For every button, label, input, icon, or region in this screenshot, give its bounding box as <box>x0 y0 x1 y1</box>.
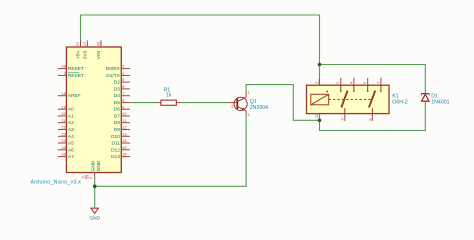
svg-text:GND: GND <box>89 215 100 221</box>
wire Arduino D5 to resistor R1 <box>130 102 156 104</box>
svg-text:27: 27 <box>75 41 80 46</box>
svg-text:28: 28 <box>61 64 66 69</box>
svg-text:D9: D9 <box>114 127 120 133</box>
svg-text:RESET: RESET <box>68 73 84 79</box>
svg-text:1N4001: 1N4001 <box>431 99 449 105</box>
transistor Q1 pin numbers <box>231 90 250 118</box>
svg-text:D11: D11 <box>111 141 120 147</box>
svg-text:D12: D12 <box>111 147 120 153</box>
wire +5V rail from Arduino pin 27 to relay pin 1 <box>81 15 320 85</box>
svg-text:D5: D5 <box>114 100 120 106</box>
svg-text:D1: D1 <box>431 93 438 99</box>
svg-text:24: 24 <box>61 138 66 143</box>
svg-text:25: 25 <box>61 145 66 150</box>
svg-text:D7: D7 <box>114 114 120 120</box>
svg-text:30: 30 <box>96 41 101 46</box>
svg-text:RESET: RESET <box>68 66 84 72</box>
svg-text:K1: K1 <box>392 93 398 99</box>
svg-text:A6: A6 <box>68 147 74 153</box>
svg-text:21: 21 <box>61 118 66 123</box>
svg-text:18: 18 <box>61 91 66 96</box>
svg-text:13: 13 <box>122 131 127 136</box>
svg-text:1k: 1k <box>166 93 172 99</box>
Arduino left pin names <box>68 66 84 160</box>
overline for active-low RESET pin 3 <box>68 72 79 74</box>
wire from junction to diode D1 cathode <box>320 65 426 94</box>
svg-text:16: 16 <box>122 152 127 157</box>
svg-text:19: 19 <box>61 104 66 109</box>
svg-text:A5: A5 <box>68 141 74 147</box>
ground symbol <box>91 208 98 213</box>
Arduino bottom pin numbers 29 4 <box>85 174 94 179</box>
svg-text:Q1: Q1 <box>250 99 257 105</box>
resistor R1 <box>157 100 181 105</box>
relay K1 body <box>307 85 390 113</box>
wire from diode D1 anode to relay pin 10 <box>320 101 426 130</box>
svg-text:10: 10 <box>122 111 127 116</box>
junction at relay pin 10 <box>318 119 322 123</box>
svg-text:G6H-2: G6H-2 <box>392 100 407 106</box>
svg-text:10: 10 <box>314 113 319 118</box>
Arduino right pin stubs <box>121 69 130 157</box>
relay dashed link <box>329 99 371 101</box>
svg-text:D0/RX: D0/RX <box>106 66 121 72</box>
svg-text:3V3: 3V3 <box>82 50 88 59</box>
relay top pin stubs <box>319 78 381 85</box>
Arduino top pin numbers 27 17 30 <box>75 41 101 46</box>
svg-text:D6: D6 <box>114 107 120 113</box>
transistor Q1 <box>228 92 248 114</box>
junction at relay pin 1 / diode branch <box>318 63 322 67</box>
svg-text:A3: A3 <box>68 127 74 133</box>
svg-text:17: 17 <box>82 41 87 46</box>
relay bottom pin numbers <box>314 113 372 121</box>
svg-text:2N3904: 2N3904 <box>250 105 268 111</box>
svg-text:+5V: +5V <box>76 50 82 59</box>
wire transistor emitter to ground rail <box>95 114 246 187</box>
relay top pin numbers <box>314 81 381 84</box>
svg-text:D8: D8 <box>114 120 120 126</box>
svg-text:12: 12 <box>122 125 127 130</box>
svg-text:D4: D4 <box>114 93 120 99</box>
relay bottom pin stubs <box>345 114 373 121</box>
svg-text:GND: GND <box>90 160 96 171</box>
wire resistor R1 to transistor base <box>181 102 228 104</box>
svg-text:26: 26 <box>61 152 66 157</box>
Arduino bottom GND pin stub <box>94 173 96 178</box>
svg-text:A0: A0 <box>68 107 74 113</box>
svg-text:D10: D10 <box>111 134 120 140</box>
Arduino right pin numbers <box>122 64 127 157</box>
svg-text:D2: D2 <box>114 80 120 86</box>
svg-text:VIN: VIN <box>96 51 102 60</box>
Arduino left pin stubs <box>58 69 67 157</box>
svg-text:23: 23 <box>61 131 66 136</box>
svg-text:D3: D3 <box>114 86 120 92</box>
svg-text:Arduino_Nano_v3.x: Arduino_Nano_v3.x <box>31 180 82 186</box>
relay coil <box>311 91 329 105</box>
svg-text:D1/TX: D1/TX <box>106 73 120 79</box>
svg-text:D13: D13 <box>111 154 120 160</box>
svg-text:GND: GND <box>96 160 102 171</box>
svg-text:A2: A2 <box>68 120 74 126</box>
relay contact arm 1 <box>340 85 355 113</box>
svg-text:15: 15 <box>122 145 127 150</box>
junction at ground rail below Arduino <box>93 185 97 189</box>
Arduino left pin numbers <box>61 64 66 157</box>
relay contact arm 2 <box>367 85 382 113</box>
svg-text:A1: A1 <box>68 114 74 120</box>
wire Arduino GND pin to GND symbol <box>94 177 96 208</box>
Arduino right pin names <box>106 66 121 160</box>
svg-text:A7: A7 <box>68 154 74 160</box>
svg-text:14: 14 <box>122 138 127 143</box>
svg-text:A4: A4 <box>68 134 74 140</box>
wire transistor collector to relay pin 10 <box>246 85 319 121</box>
svg-text:20: 20 <box>61 111 66 116</box>
svg-text:AREF: AREF <box>68 93 81 99</box>
diode D1 <box>421 94 429 102</box>
svg-text:A1: A1 <box>81 175 87 181</box>
Arduino bottom pin names GND GND <box>90 160 102 171</box>
Arduino Nano A1 body <box>66 47 121 173</box>
Arduino top pin names <box>76 50 103 59</box>
svg-text:22: 22 <box>61 125 66 130</box>
Arduino top pin stubs +5V 3V3 VIN <box>81 40 102 47</box>
